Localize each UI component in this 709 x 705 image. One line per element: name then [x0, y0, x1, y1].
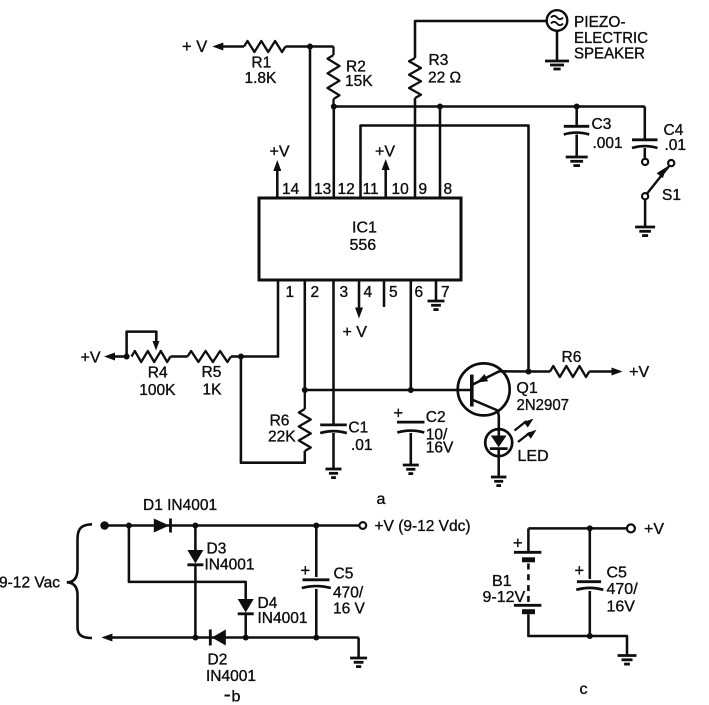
svg-text:4: 4 — [364, 284, 373, 301]
C5 value 470/ (c) — [607, 581, 639, 598]
wire bus R2 to C3/C4 — [334, 105, 645, 108]
svg-text:C1: C1 — [348, 420, 368, 437]
node R6-pin2 junction — [302, 387, 308, 393]
arrow to +V at R1 — [212, 43, 244, 51]
node C5 bottom junction (b) — [313, 635, 319, 641]
svg-text:2N2907: 2N2907 — [517, 397, 570, 414]
wire to R2 top — [310, 45, 334, 48]
pin number 6 — [415, 284, 424, 301]
section label c — [580, 681, 588, 698]
R6 22K label — [270, 412, 290, 429]
svg-text:6: 6 — [415, 284, 424, 301]
arrow to +V at R4 — [104, 353, 127, 361]
svg-text:7: 7 — [441, 284, 450, 301]
wire AC bottom rail — [101, 634, 358, 642]
ground (C1) — [326, 469, 342, 478]
svg-text:22K: 22K — [268, 429, 296, 446]
ground (speaker) — [545, 61, 569, 69]
wire B1 top — [527, 528, 530, 551]
svg-text:D3: D3 — [207, 541, 227, 558]
LED D5 — [485, 429, 512, 476]
potentiometer R4 — [132, 351, 171, 362]
svg-text:S1: S1 — [662, 187, 681, 204]
svg-text:+V: +V — [644, 521, 664, 538]
C3 label — [592, 116, 612, 133]
wire pin 3 to C1 — [332, 280, 335, 425]
svg-text:12: 12 — [338, 181, 355, 198]
pin number 10 — [392, 181, 410, 198]
arrow to +V at R6 — [589, 368, 622, 376]
svg-text:SPEAKER: SPEAKER — [574, 46, 645, 63]
svg-text:14: 14 — [282, 181, 300, 198]
node C5 top junction (c) — [587, 525, 593, 531]
svg-text:b: b — [232, 689, 241, 705]
label +V (9-12 Vdc) — [375, 518, 471, 535]
section label a — [377, 491, 386, 508]
op-amp/timer IC1 556 box — [259, 198, 461, 280]
svg-text:556: 556 — [350, 237, 377, 254]
svg-text:PIEZO-: PIEZO- — [574, 14, 626, 31]
pin number 7 — [441, 284, 450, 301]
IC1 value 556 — [350, 237, 377, 254]
svg-text:IN4001: IN4001 — [258, 610, 308, 627]
capacitor C2 — [397, 422, 425, 464]
C5 value 470/ (b) — [333, 585, 364, 602]
node R4 left junction — [124, 354, 130, 360]
wire AC top rail — [105, 524, 360, 527]
svg-text:+V: +V — [81, 350, 101, 367]
pin number 3 — [340, 284, 349, 301]
D2 value IN4001 — [206, 668, 256, 685]
node D1-D3 junction — [192, 523, 198, 529]
svg-text:470/: 470/ — [607, 581, 639, 598]
wire to C4 — [644, 107, 647, 140]
svg-text:2: 2 — [311, 284, 320, 301]
svg-text:Q1: Q1 — [516, 380, 537, 397]
R4 value 100K — [139, 382, 176, 399]
Q1 collector wire — [473, 400, 499, 436]
+V label (pin 10) — [375, 144, 395, 161]
svg-text:C3: C3 — [592, 116, 612, 133]
wire pin 9 (R3 bottom) — [414, 98, 417, 198]
R5 value 1K — [203, 382, 223, 399]
resistor R6 22K — [299, 390, 311, 451]
svg-text:470/: 470/ — [333, 585, 364, 602]
diode D2 — [210, 630, 226, 646]
wire pin 6 to C2 node — [410, 280, 413, 390]
transistor Q1 body — [458, 363, 510, 415]
Q1 value 2N2907 — [517, 397, 570, 414]
node AC-D3 branch — [126, 523, 132, 529]
wire D4 to bottom rail — [244, 614, 247, 638]
svg-text:100K: 100K — [139, 382, 176, 399]
ground (C2) — [403, 465, 419, 474]
svg-text:5: 5 — [389, 284, 398, 301]
svg-text:+ V: + V — [343, 324, 368, 341]
node R5-pin1 junction — [238, 354, 244, 360]
C2 value 16V — [426, 440, 454, 457]
piezo-electric speaker — [547, 10, 568, 31]
R3 label — [429, 52, 449, 69]
svg-text:22 Ω: 22 Ω — [428, 70, 461, 87]
svg-text:R3: R3 — [429, 52, 449, 69]
wire S1 to ground — [644, 199, 647, 226]
+V label (pin 4) — [343, 324, 368, 341]
D3 value IN4001 — [205, 557, 255, 574]
diode D1 — [154, 519, 171, 533]
svg-text:13: 13 — [314, 181, 331, 198]
label PIEZO-ELECTRIC SPEAKER — [574, 14, 648, 63]
C3 value .001 — [593, 135, 623, 152]
terminal +V (c) — [627, 524, 635, 532]
C5 label (c) — [607, 565, 628, 582]
wire to D3 — [194, 526, 197, 551]
wire pin 8 — [439, 107, 442, 199]
svg-text:+V (9-12 Vdc): +V (9-12 Vdc) — [375, 518, 471, 535]
ground (LED) — [491, 477, 507, 486]
D1 label — [143, 497, 217, 514]
D4 value IN4001 — [258, 610, 308, 627]
pin number 11 — [363, 181, 379, 198]
LED label — [518, 448, 549, 465]
resistor R1 — [244, 41, 310, 52]
pin number 14 — [282, 181, 300, 198]
svg-text:10: 10 — [392, 181, 410, 198]
C2 label — [426, 409, 446, 426]
node pin8 junction — [437, 104, 443, 110]
D4 label — [258, 595, 278, 612]
pin number 2 — [311, 284, 320, 301]
node R1-R2-pin13 junction — [307, 44, 313, 50]
C4 label — [664, 122, 684, 139]
R6 value 22K — [268, 429, 296, 446]
svg-text:B1: B1 — [492, 573, 512, 590]
svg-text:R5: R5 — [202, 364, 222, 381]
C5 value 16V (c) — [607, 599, 636, 616]
R4 label — [148, 364, 168, 381]
C5 plus sign (b) — [301, 562, 311, 580]
wire battery top rail — [528, 527, 627, 530]
battery B1 — [513, 535, 541, 612]
svg-text:16V: 16V — [426, 440, 454, 457]
svg-text:8: 8 — [444, 181, 453, 198]
svg-text:+: + — [301, 562, 311, 580]
wire pin 1 to R5 node — [241, 280, 278, 357]
capacitor C3 — [564, 107, 589, 157]
svg-text:+: + — [394, 405, 404, 423]
node C5 bottom junction (c) — [587, 633, 593, 639]
pin number 9 — [419, 181, 428, 198]
capacitor C4 — [632, 140, 658, 159]
svg-text:+: + — [513, 535, 523, 553]
resistor R3 — [409, 58, 421, 98]
pin 4 wire and +V arrow — [355, 280, 363, 319]
R4 wiper loop — [127, 332, 160, 357]
brace 9-12 Vac — [67, 524, 92, 638]
node D3 bottom junction — [192, 635, 198, 641]
section label b — [225, 689, 241, 705]
pin number 4 — [364, 284, 373, 301]
ground (c) — [618, 656, 637, 665]
capacitor C5 (b) — [302, 526, 331, 638]
svg-text:1: 1 — [286, 284, 295, 301]
terminal +V (b) — [359, 522, 366, 529]
node C5 top junction (b) — [313, 523, 319, 529]
S1 label — [662, 187, 681, 204]
svg-text:.01: .01 — [351, 437, 373, 454]
svg-text:R6: R6 — [270, 412, 290, 429]
label 9-12 Vac — [0, 575, 60, 592]
svg-text:9-12V: 9-12V — [483, 589, 526, 606]
node D4 bottom junction — [243, 635, 249, 641]
ground (b) — [350, 658, 367, 667]
node R2-pin12 junction — [331, 104, 337, 110]
pin 14 wire and +V arrow — [273, 160, 281, 198]
+V label (R4 left) — [81, 350, 101, 367]
svg-text:16 V: 16 V — [333, 601, 366, 618]
ground (S1) — [635, 227, 655, 236]
svg-text:IN4001: IN4001 — [205, 557, 255, 574]
IC1 label — [352, 220, 377, 237]
B1 label — [492, 573, 512, 590]
Q1 emitter wire — [473, 371, 529, 384]
diode D3 — [187, 550, 203, 565]
wire middle branch to D4 — [129, 526, 246, 600]
svg-text:C5: C5 — [334, 566, 354, 583]
pin number 12 — [338, 181, 355, 198]
svg-text:ELECTRIC: ELECTRIC — [574, 30, 648, 47]
svg-text:+ V: + V — [182, 38, 207, 56]
terminal (C4 bottom) — [642, 159, 648, 165]
svg-text:R4: R4 — [148, 364, 168, 381]
resistor R5 — [188, 351, 241, 362]
C2 value 10/ — [426, 426, 448, 443]
C5 value 16 V (b) — [333, 601, 366, 618]
wire R3 top to speaker — [415, 21, 547, 58]
ground (pin 7) — [428, 301, 445, 310]
svg-text:9: 9 — [419, 181, 428, 198]
pin number 5 — [389, 284, 398, 301]
wire pin 12 — [333, 107, 336, 199]
R3 value 22 ohm — [428, 70, 461, 87]
svg-text:IN4001: IN4001 — [206, 668, 256, 685]
wire D3 to bottom rail — [194, 565, 197, 638]
switch S1 — [642, 160, 674, 199]
diode D4 — [238, 599, 254, 614]
pin 10 wire and +V arrow — [382, 159, 390, 198]
svg-text:.01: .01 — [665, 137, 687, 154]
svg-text:1K: 1K — [203, 382, 223, 399]
svg-text:1.8K: 1.8K — [245, 70, 278, 87]
wire pin 11 to Q1 emitter node — [361, 126, 529, 372]
svg-text:11: 11 — [363, 181, 379, 198]
C5 label (b) — [334, 566, 354, 583]
svg-text:.001: .001 — [593, 135, 623, 152]
wire pin 5 stub — [383, 280, 386, 307]
+V supply label (R1 left) — [182, 38, 207, 56]
pin number 13 — [314, 181, 331, 198]
wire to ground (b) — [357, 638, 360, 658]
svg-text:+V: +V — [629, 364, 649, 381]
Q1 label — [516, 380, 537, 397]
capacitor C5 (c) — [576, 528, 603, 636]
resistor R6 (output) — [529, 366, 590, 377]
svg-text:R6: R6 — [562, 349, 582, 366]
R5 label — [202, 364, 222, 381]
C4 value .01 — [665, 137, 687, 154]
label +V (c) — [644, 521, 664, 538]
wire pin 13 to R1 junction — [309, 47, 312, 199]
D3 label — [207, 541, 227, 558]
R2 value 15K — [345, 73, 373, 90]
svg-text:D1 IN4001: D1 IN4001 — [143, 497, 217, 514]
pin number 1 — [286, 284, 295, 301]
+V label (pin 14) — [270, 144, 290, 161]
svg-text:D2: D2 — [208, 652, 228, 669]
C5 plus sign (c) — [575, 562, 585, 580]
+V label (R6 right) — [629, 364, 649, 381]
wire R6 node to Q1 base — [305, 389, 471, 392]
svg-text:+V: +V — [270, 144, 290, 161]
wire R5 node to R6 bottom — [241, 357, 305, 463]
pin number 8 — [444, 181, 453, 198]
wire pin 7 to ground — [435, 280, 438, 300]
wire battery bottom rail — [528, 614, 627, 654]
svg-text:16V: 16V — [607, 599, 636, 616]
LED arrows — [515, 419, 537, 442]
svg-text:c: c — [580, 681, 588, 698]
ground (C3) — [566, 157, 588, 166]
C2 plus sign — [394, 405, 404, 423]
terminal dot (AC top) — [100, 521, 109, 530]
wire speaker to ground — [556, 31, 559, 60]
svg-text:a: a — [377, 491, 386, 508]
svg-text:+: + — [575, 562, 585, 580]
node pin6-C2 junction — [408, 387, 414, 393]
svg-text:3: 3 — [340, 284, 349, 301]
svg-text:15K: 15K — [345, 73, 373, 90]
R2 label — [346, 59, 366, 76]
svg-text:IC1: IC1 — [352, 220, 377, 237]
svg-text:LED: LED — [518, 448, 549, 465]
D2 label — [208, 652, 228, 669]
capacitor C1 — [320, 425, 347, 468]
wire pin 2 to R6 node — [304, 280, 307, 390]
C1 value .01 — [351, 437, 373, 454]
node C3 junction — [574, 104, 580, 110]
svg-text:+V: +V — [375, 144, 395, 161]
R1 label — [251, 55, 271, 72]
B1 value 9-12V — [483, 589, 526, 606]
svg-text:C5: C5 — [607, 565, 628, 582]
resistor R2 — [328, 47, 340, 107]
R6 output label — [562, 349, 582, 366]
wire R4-R5 — [171, 355, 188, 358]
svg-text:C2: C2 — [426, 409, 446, 426]
R1 value 1.8K — [245, 70, 278, 87]
C1 label — [348, 420, 368, 437]
node Q1 emitter junction — [526, 369, 532, 375]
svg-text:9-12 Vac: 9-12 Vac — [0, 575, 60, 592]
